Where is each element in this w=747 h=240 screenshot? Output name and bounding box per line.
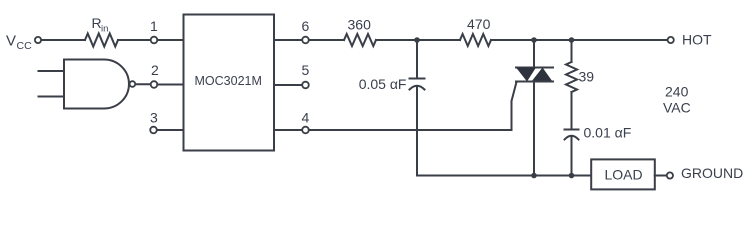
wire pin4 to triac gate [309,82,517,130]
resistor Rin [85,34,118,47]
svg-text:LOAD: LOAD [605,167,643,183]
svg-text:470: 470 [467,16,491,32]
svg-text:4: 4 [302,110,310,126]
capacitor C1 curved plate [410,86,425,90]
pin 6 terminal [302,37,309,44]
wire 470 to HOT [491,39,667,41]
wire Rin to pin1 [118,39,151,41]
wire VCC to Rin [42,39,86,41]
label Rin [92,15,109,35]
wire C2 down to bottom rail [571,137,573,176]
bottom rail wire [417,175,591,177]
svg-text:240: 240 [665,84,689,100]
triac Q1 top lead [533,40,535,68]
capacitor C2 curved plate [565,136,579,140]
svg-text:5: 5 [302,62,310,78]
junction triac bottom [531,173,537,179]
wire R39 to C2 [571,92,573,129]
wire U1 to pin6 [274,39,302,41]
nand gate U2 [64,60,129,109]
svg-text:CC: CC [17,40,33,52]
capacitor C1 0.05uF top plate [410,78,425,80]
pin 1 terminal [151,37,158,44]
wire U1 to pin4 [274,129,302,131]
label 240 VAC [663,84,691,116]
svg-text:3: 3 [150,110,158,126]
wire pin2 to U1 [157,84,183,86]
svg-text:1: 1 [150,18,158,34]
resistor R39 [566,62,577,92]
wire pin6 to R360 [309,39,344,41]
triac Q1 left triangle [516,68,536,82]
svg-text:2: 2 [151,62,159,78]
wire U1 to pin5 [274,84,302,86]
nand gate input wire top [39,70,65,72]
resistor 360 [344,34,376,46]
triac Q1 right triangle [532,68,553,82]
load box [591,159,655,189]
pin 3 terminal [150,127,157,134]
junction triac top [531,37,537,43]
terminal VCC [35,37,41,43]
pin 5 terminal [302,82,309,89]
wire pin3 to U1 [157,129,184,131]
svg-text:0.05 αF: 0.05 αF [359,76,407,92]
junction node A [414,37,420,43]
capacitor C2 0.01uF top plate [565,129,579,131]
triac Q1 top bar [516,67,553,69]
wire load to GROUND [655,175,667,177]
terminal HOT [668,37,674,43]
nand gate input wire bottom [39,96,65,98]
svg-text:GROUND: GROUND [681,165,743,181]
triac Q1 bottom bar [516,81,553,83]
wire R360 to node A [376,39,460,41]
junction snubber top [569,37,575,43]
svg-text:MOC3021M: MOC3021M [195,74,262,88]
svg-text:in: in [101,24,108,35]
svg-text:360: 360 [348,17,372,33]
wire bubble to pin2 [136,83,151,85]
wire snubber top down to R39 [571,40,573,62]
node VCC label [6,33,32,53]
svg-text:HOT: HOT [682,32,712,48]
svg-text:VAC: VAC [663,100,691,116]
pin 4 terminal [302,127,309,134]
pin 2 terminal [151,81,158,88]
resistor 470 [460,34,491,46]
nand gate inversion bubble [130,81,136,87]
svg-text:0.01 αF: 0.01 αF [584,125,632,141]
wire C1 down to bottom rail [416,87,418,176]
wire node A down to C1 [416,40,418,78]
junction snubber bottom [569,173,575,179]
triac Q1 bottom lead [533,82,535,176]
svg-text:39: 39 [579,69,595,85]
optocoupler U1 MOC3021M [184,15,275,151]
svg-text:V: V [6,33,16,50]
svg-text:6: 6 [302,18,310,34]
terminal GROUND [667,172,673,178]
wire pin1 to U1 [157,39,183,41]
